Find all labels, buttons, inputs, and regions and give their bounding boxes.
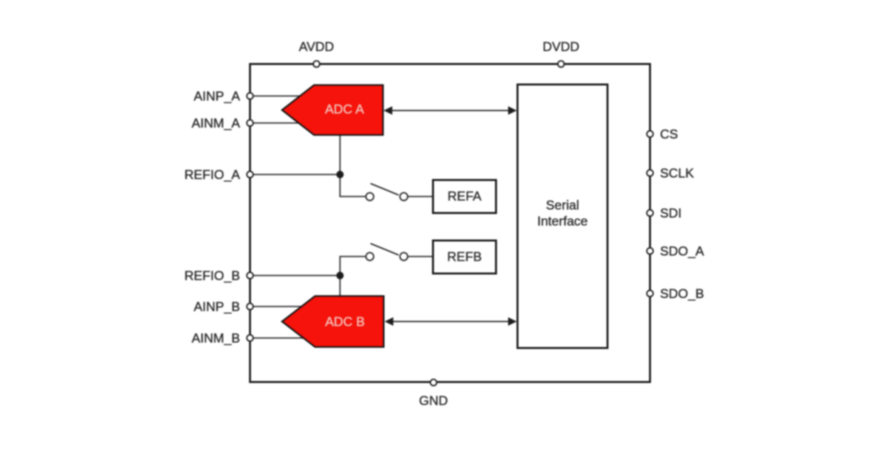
svg-text:SDO_B: SDO_B bbox=[660, 286, 704, 301]
svg-text:REFB: REFB bbox=[447, 249, 482, 264]
wire ADC A to serial interface (double arrow) bbox=[384, 106, 517, 115]
svg-text:AINM_B: AINM_B bbox=[192, 331, 240, 346]
pin AINM_A bbox=[192, 116, 254, 131]
wire ADC A to switch A vertical bbox=[340, 135, 366, 197]
wire ADC B to serial interface (double arrow) bbox=[385, 317, 517, 326]
svg-text:ADC A: ADC A bbox=[325, 101, 364, 116]
node REFIO_A junction bbox=[336, 171, 343, 178]
pin REFIO_B bbox=[184, 268, 253, 283]
svg-text:SDI: SDI bbox=[660, 206, 682, 221]
pin SDO_B bbox=[647, 286, 704, 301]
wire AINP_A bbox=[252, 95, 322, 97]
wire REFIO_A bbox=[252, 174, 340, 176]
svg-text:AINP_A: AINP_A bbox=[194, 89, 241, 104]
svg-text:GND: GND bbox=[419, 393, 448, 408]
ADC A block bbox=[282, 85, 383, 135]
wire switch B to REFB bbox=[408, 256, 433, 258]
pin SDI bbox=[647, 206, 682, 221]
svg-text:Serial: Serial bbox=[546, 198, 579, 213]
wire REFIO_B bbox=[252, 275, 340, 277]
svg-text:Interface: Interface bbox=[537, 214, 588, 229]
node REFIO_B junction bbox=[336, 272, 343, 279]
wire AINM_A bbox=[252, 122, 318, 124]
switch A bbox=[366, 184, 408, 201]
svg-text:DVDD: DVDD bbox=[543, 39, 580, 54]
wire AINM_B bbox=[252, 337, 318, 339]
svg-text:AINM_A: AINM_A bbox=[192, 116, 241, 131]
wire junction B to switch B and down to ADC B bbox=[340, 257, 366, 297]
REFB box bbox=[433, 241, 496, 274]
svg-text:REFIO_A: REFIO_A bbox=[184, 167, 240, 182]
svg-text:CS: CS bbox=[660, 127, 678, 142]
pin AVDD bbox=[299, 39, 334, 67]
wire AINP_B bbox=[252, 306, 322, 308]
serial interface block U1 bbox=[518, 85, 608, 349]
pin AINP_A bbox=[194, 89, 253, 104]
pin REFIO_A bbox=[184, 167, 253, 182]
pin SCLK bbox=[647, 166, 694, 181]
wire switch A to REFA bbox=[408, 196, 433, 198]
switch B bbox=[366, 244, 408, 261]
svg-text:SCLK: SCLK bbox=[660, 166, 694, 181]
svg-text:ADC B: ADC B bbox=[325, 314, 365, 329]
svg-text:AINP_B: AINP_B bbox=[194, 299, 240, 314]
pin GND bbox=[419, 379, 448, 408]
pin SDO_A bbox=[647, 244, 705, 259]
pin AINM_B bbox=[192, 331, 254, 346]
outer device boundary bbox=[250, 64, 650, 382]
svg-text:SDO_A: SDO_A bbox=[660, 244, 704, 259]
svg-text:AVDD: AVDD bbox=[299, 39, 334, 54]
svg-text:REFIO_B: REFIO_B bbox=[184, 268, 240, 283]
ADC B block bbox=[282, 296, 384, 347]
pin DVDD bbox=[543, 39, 580, 67]
svg-text:REFA: REFA bbox=[448, 189, 482, 204]
pin CS bbox=[647, 127, 679, 142]
REFA box bbox=[433, 180, 496, 213]
pin AINP_B bbox=[194, 299, 253, 314]
